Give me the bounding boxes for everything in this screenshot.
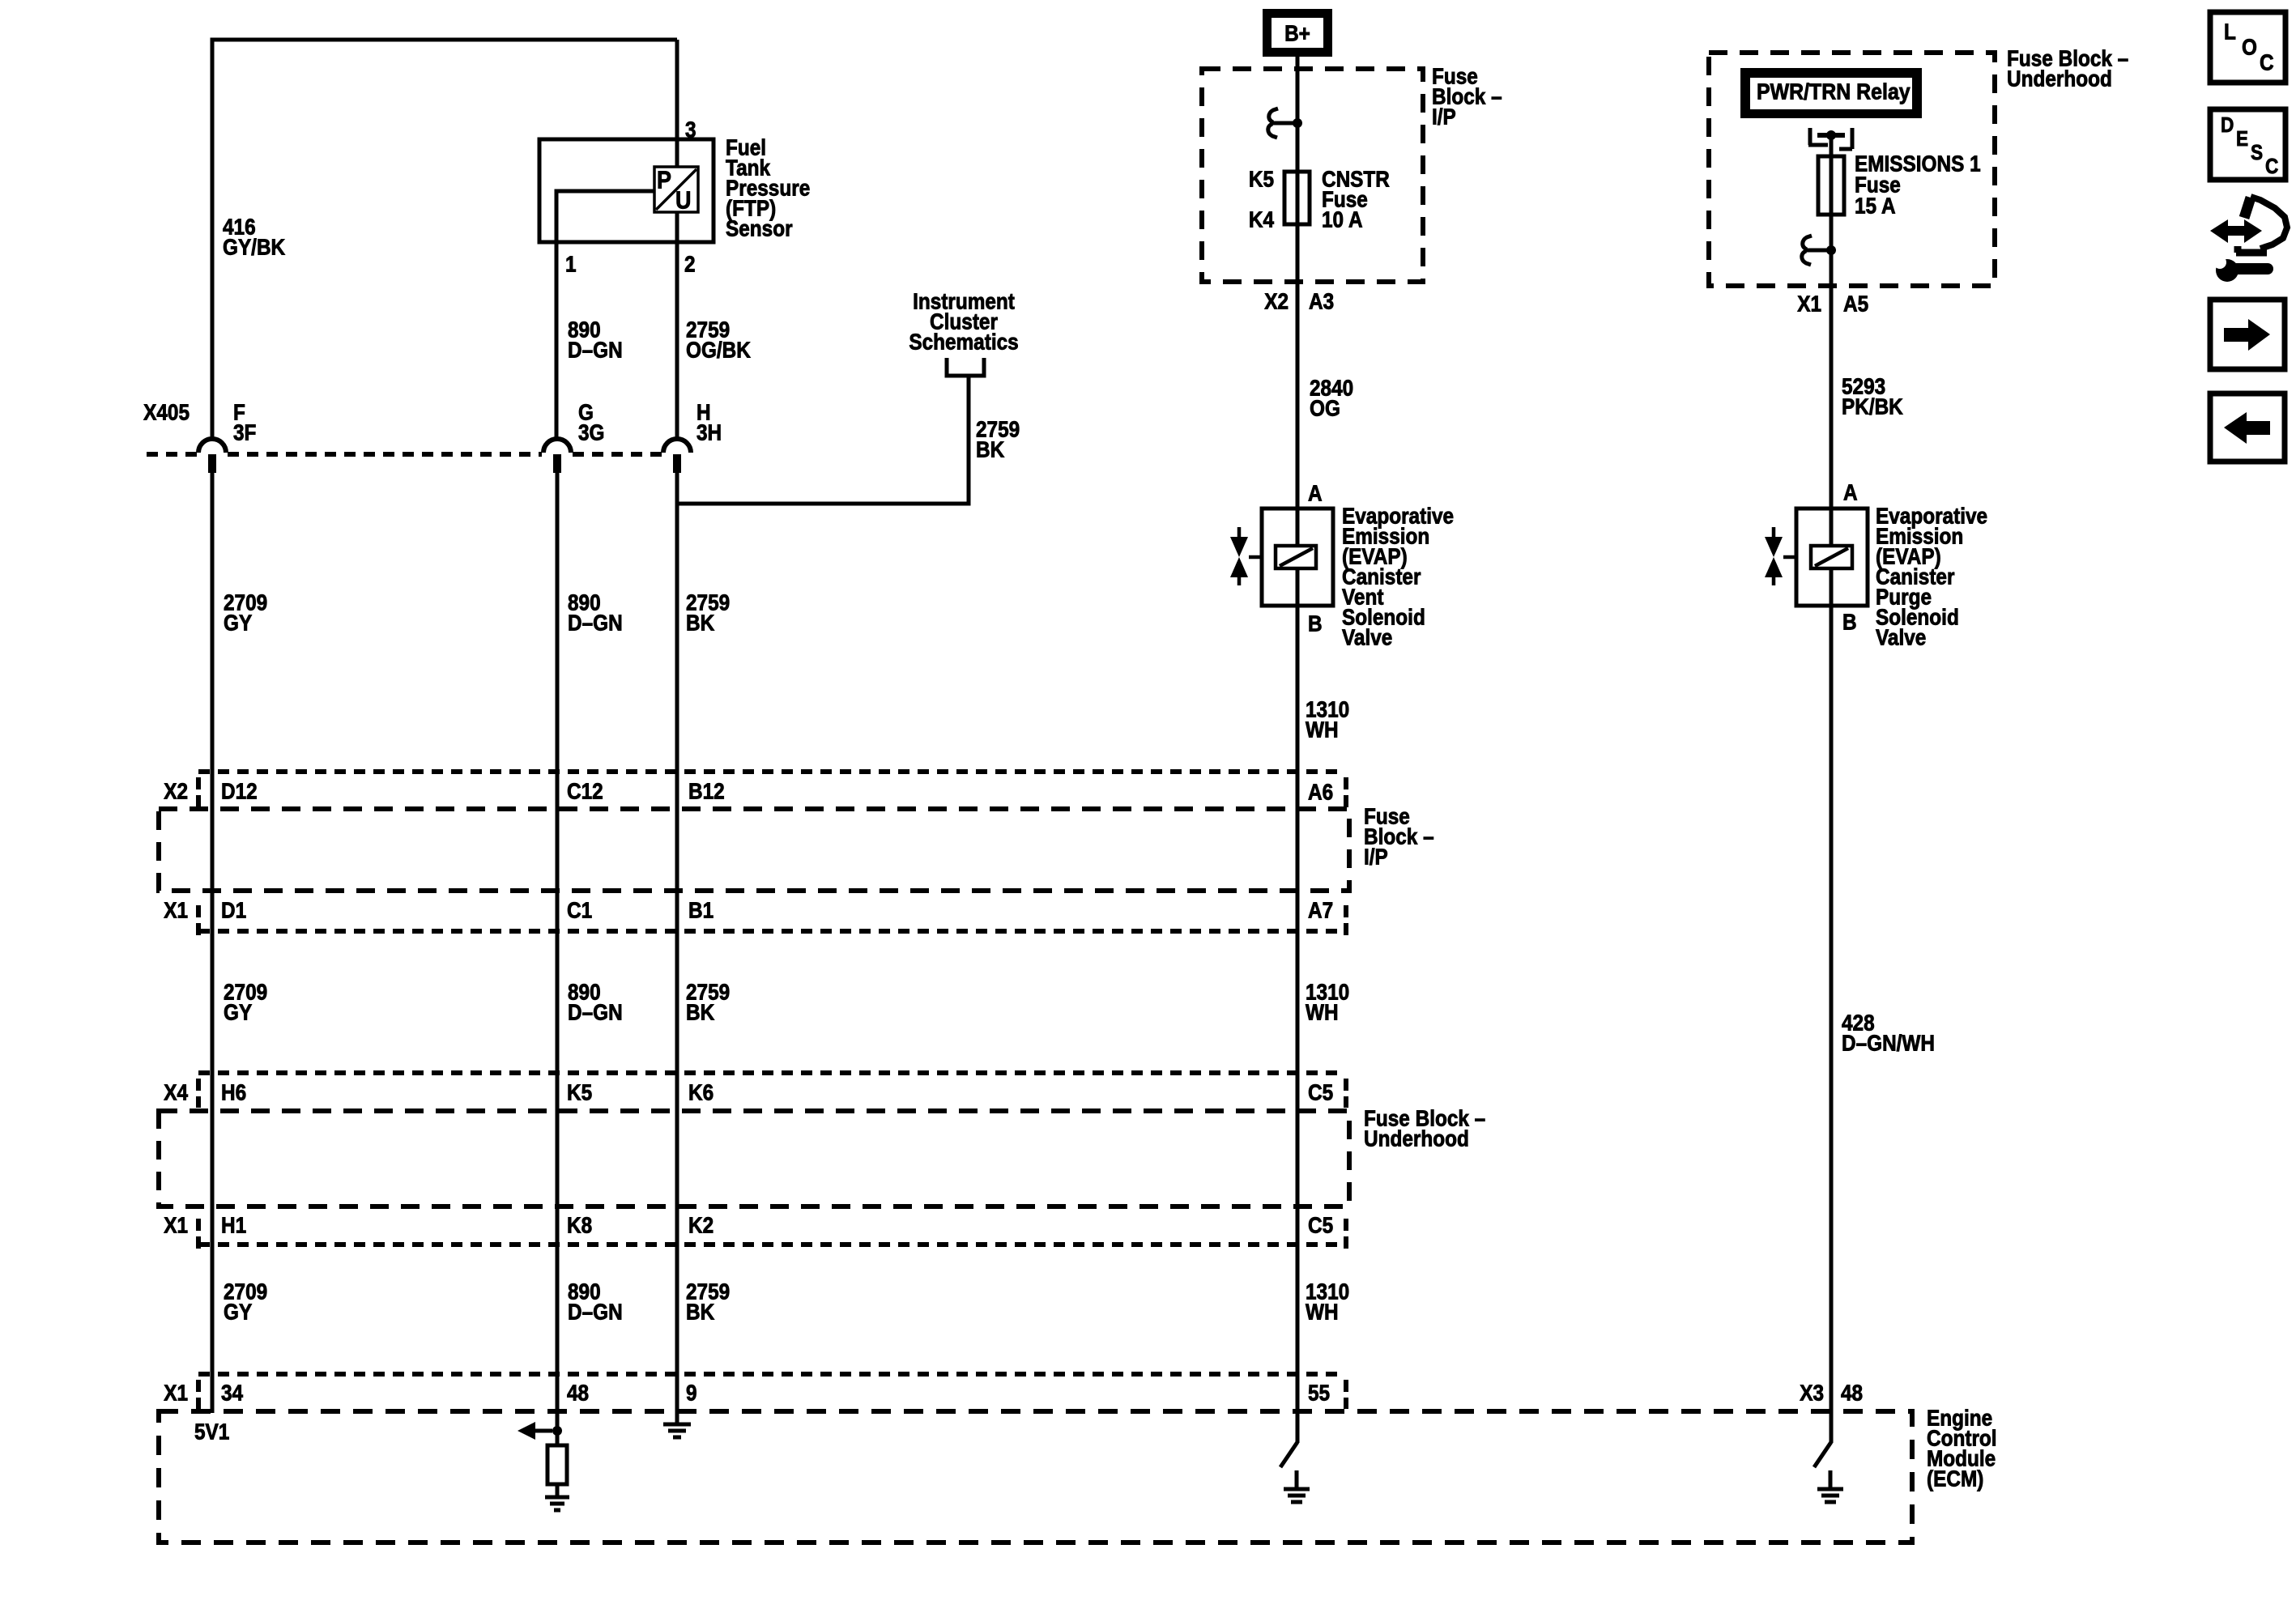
- svg-text:X1: X1: [164, 897, 188, 923]
- ground ECM resistor: [545, 1497, 569, 1510]
- svg-text:K8: K8: [567, 1212, 592, 1238]
- P/U pressure transducer element: [654, 167, 698, 212]
- svg-text:9: 9: [686, 1380, 697, 1406]
- connector row X1 (fuse block I/P) dotted line: [198, 929, 1341, 934]
- svg-text:X4: X4: [164, 1079, 188, 1105]
- svg-text:D–GN: D–GN: [568, 610, 623, 636]
- svg-text:P: P: [657, 167, 671, 194]
- svg-text:K6: K6: [688, 1079, 714, 1105]
- svg-text:BK: BK: [686, 610, 714, 636]
- svg-text:C5: C5: [1308, 1212, 1333, 1238]
- connector row ECM right tick: [1344, 1380, 1348, 1409]
- fuse block I/P dashed outline: [1202, 69, 1423, 282]
- relay output terminal brackets: [1808, 128, 1852, 149]
- svg-text:B: B: [1842, 609, 1857, 635]
- ground ECM vent driver: [1284, 1470, 1310, 1502]
- bus tap hook at CNSTR fuse feed: [1268, 109, 1297, 138]
- connector row X1 left tick: [196, 905, 201, 936]
- connector row X4 (fuse block underhood) dotted line: [198, 1070, 1341, 1075]
- icon diagnostic arrows and wrench: [2226, 226, 2247, 236]
- junction dot relay output: [1826, 130, 1836, 140]
- bus tap hook below EMISSIONS fuse: [1802, 236, 1831, 265]
- svg-text:34: 34: [221, 1380, 243, 1406]
- vent valve symbol: [1239, 527, 1262, 585]
- svg-text:I/P: I/P: [1432, 104, 1456, 130]
- svg-text:3H: 3H: [696, 419, 722, 445]
- svg-text:X1: X1: [1797, 291, 1821, 317]
- svg-text:Valve: Valve: [1876, 624, 1926, 650]
- connector row X2 right tick: [1344, 777, 1348, 810]
- svg-text:A5: A5: [1843, 291, 1868, 317]
- svg-text:O: O: [2242, 34, 2257, 60]
- svg-text:X2: X2: [164, 778, 188, 804]
- connector X405 cavity H arc: [663, 439, 691, 453]
- ground ECM pin 9 low reference: [663, 1424, 691, 1437]
- svg-text:A: A: [1308, 480, 1323, 506]
- svg-text:D–GN: D–GN: [568, 999, 623, 1025]
- icon box back arrow: [2210, 394, 2285, 462]
- fuse block underhood dashed outline (top right): [1709, 53, 1995, 286]
- ECM internal pull resistor: [547, 1445, 567, 1484]
- wire 2840 OG / 1310 WH vent solenoid feed from B+: [1296, 57, 1300, 1443]
- svg-text:GY: GY: [224, 999, 253, 1025]
- purge valve symbol: [1774, 527, 1796, 585]
- svg-text:H1: H1: [221, 1212, 246, 1238]
- svg-text:C12: C12: [567, 778, 603, 804]
- connector row X2 (fuse block I/P) dotted line: [198, 769, 1341, 774]
- connector X405 cavity F arc: [198, 439, 226, 453]
- svg-text:GY: GY: [224, 610, 253, 636]
- wire 890 D-GN pin 1 from sensor internal node: [556, 191, 655, 438]
- svg-text:48: 48: [567, 1380, 589, 1406]
- EVAP canister purge solenoid valve box: [1796, 509, 1868, 606]
- svg-text:C5: C5: [1308, 1079, 1333, 1105]
- ECM vent driver switch: [1280, 1442, 1297, 1467]
- ground ECM purge driver: [1817, 1470, 1843, 1502]
- svg-text:Sensor: Sensor: [726, 215, 793, 241]
- svg-text:5V1: 5V1: [194, 1419, 229, 1445]
- connector X405 cavity G arc: [543, 439, 571, 453]
- svg-text:B1: B1: [688, 897, 714, 923]
- svg-text:I/P: I/P: [1364, 844, 1388, 870]
- connector row X1 right tick: [1344, 905, 1348, 936]
- junction dot below EMISSIONS fuse: [1826, 245, 1836, 255]
- vent solenoid coil: [1276, 546, 1316, 568]
- svg-text:BK: BK: [976, 436, 1004, 462]
- svg-text:U: U: [675, 187, 691, 215]
- relay output bar: [1817, 133, 1845, 138]
- connector X405 dotted row: [147, 452, 662, 457]
- svg-text:C1: C1: [567, 897, 592, 923]
- fuse block underhood pass-through dashed box: [159, 1111, 1349, 1206]
- ECM purge driver switch: [1814, 1442, 1831, 1467]
- battery feed B+ box: [1263, 9, 1332, 57]
- connector row ECM left tick: [196, 1380, 201, 1409]
- connector X405 terminal G tick: [553, 454, 561, 473]
- fuse block I/P pass-through dashed box: [159, 809, 1349, 891]
- connector row X4 left tick: [196, 1079, 201, 1108]
- EVAP canister vent solenoid valve box: [1262, 509, 1333, 606]
- svg-text:D–GN: D–GN: [568, 1299, 623, 1325]
- instrument cluster schematics off-page bracket: [947, 358, 984, 376]
- svg-text:E: E: [2236, 127, 2248, 151]
- svg-text:PK/BK: PK/BK: [1842, 394, 1903, 419]
- svg-text:3G: 3G: [578, 419, 604, 445]
- svg-text:Schematics: Schematics: [909, 329, 1018, 355]
- svg-text:B+: B+: [1284, 20, 1310, 46]
- svg-text:WH: WH: [1306, 999, 1339, 1025]
- svg-text:OG: OG: [1310, 395, 1340, 421]
- svg-text:A6: A6: [1308, 779, 1333, 805]
- icon box forward arrow: [2210, 300, 2285, 369]
- wire 2759 OG/BK pin 2 below P/U element: [675, 211, 679, 438]
- svg-text:C: C: [2265, 155, 2278, 178]
- purge solenoid coil: [1811, 546, 1852, 568]
- svg-text:K2: K2: [688, 1212, 714, 1238]
- svg-text:D–GN/WH: D–GN/WH: [1842, 1030, 1935, 1056]
- wire 2759 OG/BK pin3 drop to P/U sensor element: [675, 40, 679, 168]
- svg-text:GY/BK: GY/BK: [223, 234, 285, 260]
- connector X405 terminal H tick: [673, 454, 681, 473]
- svg-text:K5: K5: [1249, 166, 1274, 192]
- svg-text:B12: B12: [688, 778, 725, 804]
- svg-text:GY: GY: [224, 1299, 253, 1325]
- svg-text:A: A: [1843, 479, 1858, 505]
- ECM 5V reference arrow: [531, 1429, 552, 1433]
- svg-text:X1: X1: [164, 1380, 188, 1406]
- svg-text:(ECM): (ECM): [1927, 1466, 1983, 1491]
- svg-text:Underhood: Underhood: [2007, 66, 2112, 91]
- svg-text:X405: X405: [143, 399, 190, 425]
- svg-text:1: 1: [565, 251, 577, 277]
- svg-text:C: C: [2260, 49, 2274, 75]
- svg-text:D: D: [2221, 113, 2234, 137]
- fuse CNSTR 10A body: [1284, 172, 1310, 224]
- svg-text:H6: H6: [221, 1079, 246, 1105]
- svg-text:L: L: [2224, 19, 2236, 45]
- connector row X1/X3 (ECM) dotted line: [198, 1372, 1341, 1377]
- svg-text:B: B: [1308, 611, 1323, 636]
- wire 2759 BK branch to instrument cluster: [677, 377, 969, 504]
- svg-text:3F: 3F: [233, 419, 256, 445]
- junction dot CNSTR fuse feed: [1293, 118, 1302, 128]
- wire resistor to ground: [556, 1484, 560, 1497]
- icon box DESC: [2210, 109, 2285, 180]
- connector row X1 underhood right tick: [1344, 1219, 1348, 1249]
- svg-text:K5: K5: [567, 1079, 592, 1105]
- svg-text:WH: WH: [1306, 717, 1339, 743]
- svg-text:X1: X1: [164, 1212, 188, 1238]
- connector row X2 left tick: [196, 777, 201, 810]
- wire 5293 PK/BK / 428 D-GN/WH purge solenoid feed: [1830, 135, 1834, 1443]
- svg-text:48: 48: [1841, 1380, 1863, 1406]
- svg-text:A7: A7: [1308, 897, 1333, 923]
- junction dot at ECM pin 48: [552, 1426, 562, 1436]
- svg-text:D1: D1: [221, 897, 246, 923]
- svg-text:WH: WH: [1306, 1299, 1339, 1325]
- svg-text:K4: K4: [1249, 206, 1275, 232]
- svg-text:3: 3: [685, 117, 696, 143]
- svg-text:55: 55: [1308, 1380, 1330, 1406]
- fuse EMISSIONS 1 15A body: [1818, 156, 1844, 215]
- svg-text:10 A: 10 A: [1322, 206, 1363, 232]
- connector row X1 (fuse block underhood) dotted line: [198, 1242, 1341, 1247]
- svg-text:Underhood: Underhood: [1364, 1126, 1469, 1151]
- connector X405 terminal F tick: [208, 454, 216, 473]
- FTP sensor box: [539, 139, 714, 242]
- svg-text:Valve: Valve: [1342, 624, 1392, 650]
- svg-text:S: S: [2251, 141, 2263, 164]
- svg-text:BK: BK: [686, 999, 714, 1025]
- icon box LOC: [2210, 12, 2285, 83]
- svg-text:BK: BK: [686, 1299, 714, 1325]
- svg-text:X2: X2: [1264, 288, 1289, 314]
- svg-text:OG/BK: OG/BK: [686, 337, 751, 363]
- svg-text:D–GN: D–GN: [568, 337, 623, 363]
- engine control module dashed box: [159, 1411, 1912, 1543]
- svg-text:15 A: 15 A: [1855, 193, 1896, 219]
- svg-text:2: 2: [684, 251, 696, 277]
- connector row X1 underhood left tick: [196, 1219, 201, 1249]
- wire 2709 GY main vertical run to ECM: [211, 473, 215, 1413]
- svg-text:X3: X3: [1800, 1380, 1824, 1406]
- PWR/TRN relay box: [1740, 68, 1922, 118]
- wire 890 D-GN main vertical run to ECM resistor junction: [556, 473, 560, 1445]
- svg-text:A3: A3: [1309, 288, 1334, 314]
- connector row X4 right tick: [1344, 1079, 1348, 1108]
- svg-text:D12: D12: [221, 778, 258, 804]
- wire 416 GY/BK top loop from FTP sensor pin 3: [212, 40, 677, 438]
- svg-text:PWR/TRN Relay: PWR/TRN Relay: [1757, 79, 1910, 104]
- wire 2759 BK main vertical run to ECM ground: [675, 473, 679, 1423]
